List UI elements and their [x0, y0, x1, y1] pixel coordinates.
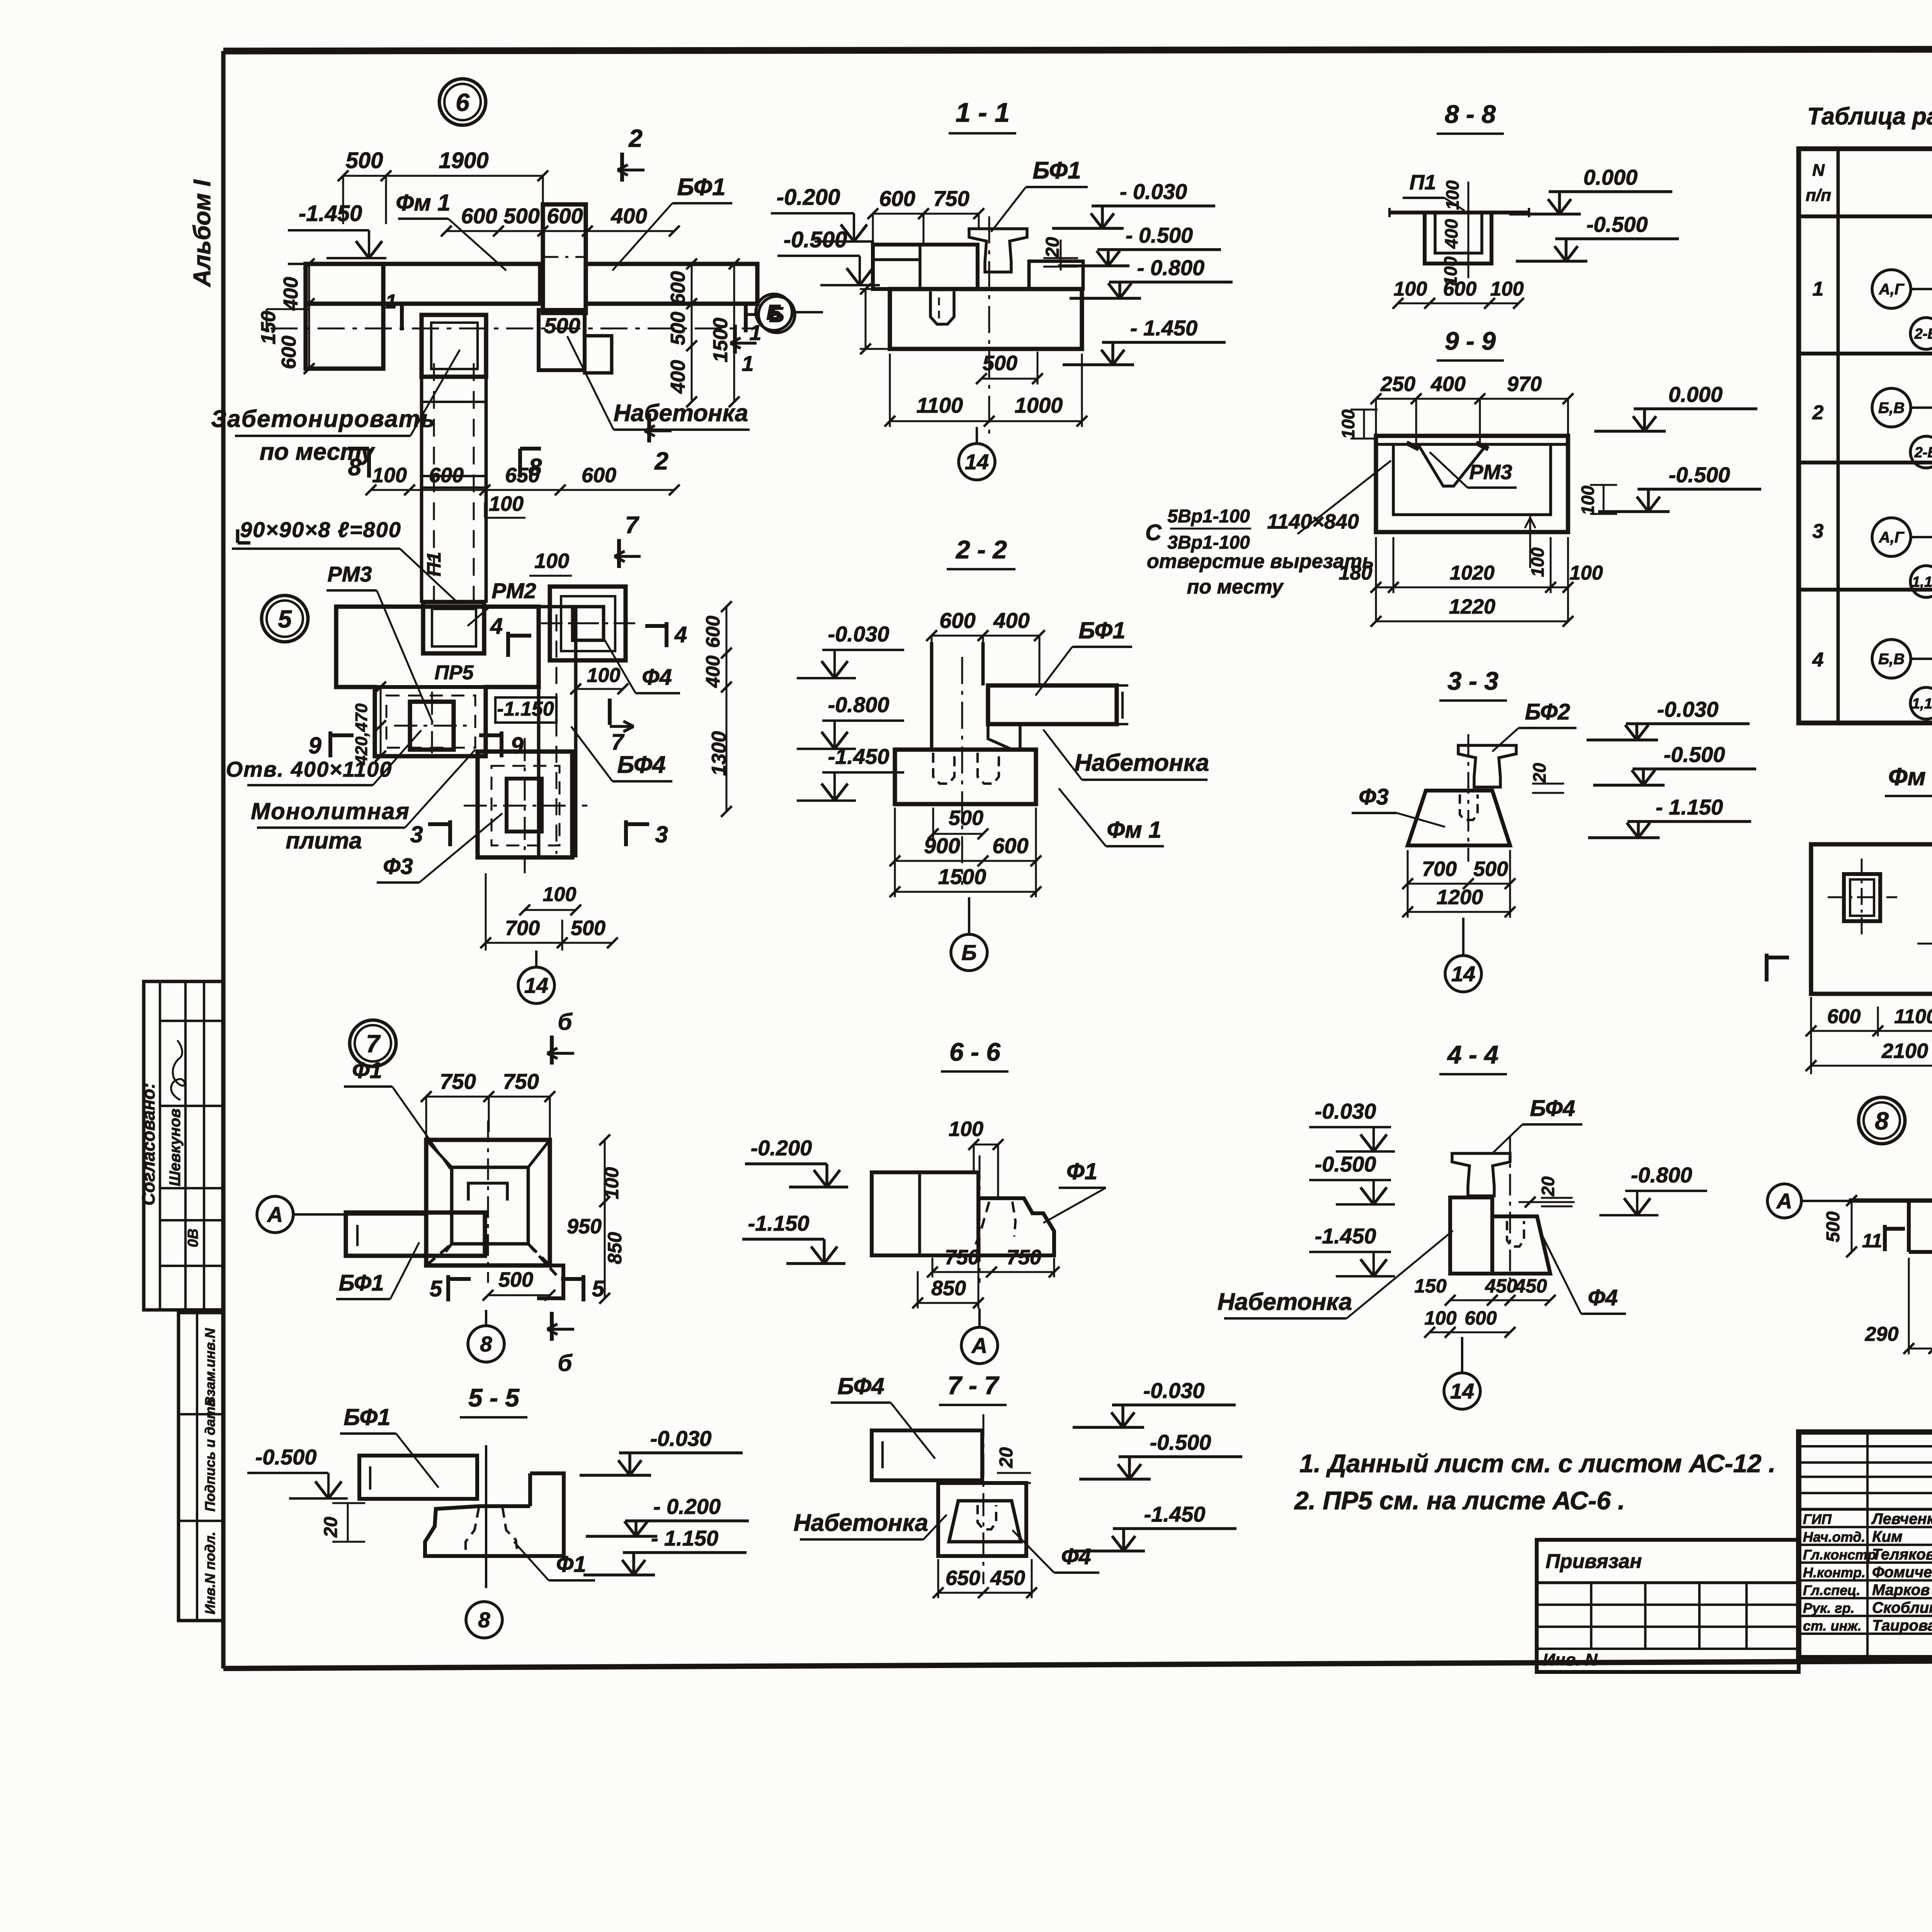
section 3-3 foundation Ф3 [1408, 791, 1510, 845]
svg-text:Б,В: Б,В [1878, 651, 1905, 668]
svg-text:500: 500 [949, 806, 983, 830]
svg-text:4: 4 [674, 622, 687, 647]
svg-text:- 0.200: - 0.200 [653, 1494, 721, 1519]
node 6 axis dashdot [270, 328, 757, 330]
svg-text:600: 600 [278, 336, 300, 369]
svg-text:N: N [1812, 161, 1825, 180]
svg-text:БФ4: БФ4 [617, 752, 665, 778]
svg-text:450: 450 [1514, 1275, 1547, 1297]
svg-text:Набетонка: Набетонка [1218, 1289, 1352, 1315]
svg-text:-0.500: -0.500 [1150, 1430, 1211, 1454]
svg-text:А: А [267, 1202, 283, 1227]
svg-text:500: 500 [983, 352, 1017, 375]
svg-text:150: 150 [257, 311, 280, 345]
node 6 right dim chain [691, 264, 693, 402]
svg-text:-0.500: -0.500 [784, 227, 847, 252]
node 7 foundation Ф1 plan [426, 1140, 550, 1265]
svg-text:650: 650 [505, 464, 540, 487]
svg-text:400: 400 [993, 608, 1029, 633]
svg-text:Гл.констр: Гл.констр [1803, 1547, 1876, 1563]
svg-text:Фм 1: Фм 1 [1888, 763, 1932, 791]
node 6 section mark 2 top [620, 153, 624, 182]
section 6-6 Ф1 profile [978, 1198, 1054, 1255]
svg-text:180: 180 [1339, 562, 1372, 584]
sheet frame [223, 49, 1932, 51]
svg-text:2. ПР5 см. на листе АС-6: 2. ПР5 см. на листе АС-6 . [1294, 1486, 1625, 1515]
svg-text:500: 500 [544, 313, 580, 338]
section 1-1 column axis [988, 216, 990, 440]
section 3-3 axis bubble 14 [1445, 956, 1481, 992]
section 6-6 beam block [872, 1172, 978, 1255]
svg-text:2-Б: 2-Б [1914, 444, 1932, 461]
svg-text:600: 600 [879, 186, 915, 211]
svg-text:420,470: 420,470 [352, 703, 371, 765]
svg-text:-0.800: -0.800 [1631, 1163, 1692, 1187]
svg-text:100: 100 [534, 549, 569, 573]
svg-text:-1.450: -1.450 [299, 201, 362, 226]
svg-text:1: 1 [742, 351, 753, 376]
svg-text:100: 100 [1578, 485, 1598, 515]
svg-text:8: 8 [348, 454, 362, 481]
svg-text:8: 8 [478, 1608, 490, 1632]
Фм1 column opening 1 [1844, 874, 1880, 921]
svg-text:РМ3: РМ3 [1469, 461, 1512, 484]
svg-text:1500: 1500 [709, 318, 732, 362]
node 5 right dim chain [726, 607, 728, 811]
svg-text:600: 600 [939, 608, 975, 633]
section 9-9 box [1376, 436, 1568, 532]
svg-text:3: 3 [655, 821, 668, 847]
node 5 foundation Ф4 plan [550, 587, 626, 660]
svg-text:650: 650 [946, 1566, 980, 1590]
svg-text:А: А [1776, 1189, 1792, 1213]
svg-text:-0.800: -0.800 [828, 692, 889, 717]
svg-text:Взам.инв.N: Взам.инв.N [202, 1328, 218, 1406]
node 5 section marks 9 [328, 731, 332, 757]
svg-text:3: 3 [410, 821, 423, 847]
svg-text:400: 400 [702, 655, 724, 688]
svg-text:Б,В: Б,В [1878, 400, 1905, 417]
svg-text:500: 500 [667, 312, 689, 345]
node 7 axis bubble 8 [468, 1326, 504, 1362]
svg-text:20: 20 [1529, 763, 1549, 783]
node 7 beam БФ1 plan [346, 1213, 485, 1256]
svg-text:1: 1 [749, 320, 761, 345]
svg-text:400: 400 [611, 204, 647, 228]
node 6 left block [306, 264, 383, 369]
svg-text:- 0.800: - 0.800 [1137, 255, 1204, 280]
node 5 wall БФ4 strip [537, 687, 541, 857]
svg-text:100: 100 [1570, 562, 1603, 584]
section 9-9 bottom dims [1376, 587, 1568, 588]
section 8-8 slab line [1389, 211, 1529, 214]
svg-text:-0.030: -0.030 [1143, 1378, 1205, 1403]
svg-text:- 1.150: - 1.150 [1656, 795, 1723, 819]
svg-text:750: 750 [933, 186, 969, 211]
svg-text:100: 100 [1338, 409, 1358, 439]
svg-text:б: б [558, 1009, 573, 1035]
svg-text:850: 850 [604, 1232, 626, 1264]
svg-text:ст. инж.: ст. инж. [1803, 1618, 1862, 1634]
svg-text:450: 450 [1485, 1275, 1517, 1297]
node 5 axis bubble 14 [518, 967, 554, 1003]
svg-text:100: 100 [372, 464, 407, 487]
svg-text:600: 600 [702, 616, 724, 648]
svg-text:2100: 2100 [1881, 1039, 1928, 1063]
section 2-2 dims 900 600 [895, 860, 1036, 862]
node 6 column БФ1 plan [543, 204, 586, 313]
section 6-6 dims 750 750 [932, 1271, 1054, 1273]
svg-text:750: 750 [503, 1069, 539, 1094]
svg-text:А: А [971, 1333, 987, 1358]
svg-text:3: 3 [1813, 520, 1824, 543]
svg-text:1200: 1200 [1437, 886, 1483, 909]
svg-text:500: 500 [571, 917, 605, 940]
node 6 opening РМ2 [422, 315, 486, 377]
svg-text:Теляковский: Теляковский [1872, 1546, 1932, 1563]
svg-text:Забетонировать: Забетонировать [211, 406, 436, 432]
svg-text:5 - 5: 5 - 5 [468, 1383, 520, 1412]
node 5 monolithic slab [375, 687, 486, 756]
node 7 axis А [257, 1196, 293, 1233]
section 1-1 left ext lines [860, 288, 890, 290]
svg-text:-0.500: -0.500 [1587, 212, 1648, 236]
svg-text:100: 100 [587, 664, 621, 687]
node 5 section mark 4 [506, 632, 510, 657]
svg-text:Набетонка: Набетонка [1075, 750, 1209, 776]
section 1-1 rail БФ1 [969, 229, 1027, 272]
section 8-8 bottom dims [1398, 303, 1519, 304]
node 5 opening РМ2 top [423, 602, 484, 653]
svg-text:Инв.N подл.: Инв.N подл. [202, 1532, 218, 1614]
section 1-1 dims 1100 1000 [890, 420, 1082, 422]
svg-text:РМ3: РМ3 [327, 562, 372, 586]
svg-text:7 - 7: 7 - 7 [947, 1371, 1000, 1400]
node 6 foundation band [306, 264, 540, 304]
node 7 section mark б bottom [550, 1312, 554, 1341]
section 4-4 rail БФ4 [1452, 1153, 1510, 1196]
svg-text:Ф4: Ф4 [1588, 1285, 1618, 1310]
svg-text:14: 14 [965, 450, 989, 474]
svg-text:1: 1 [1813, 278, 1824, 300]
svg-text:9: 9 [510, 733, 524, 759]
section 4-4 dims 100 600 [1430, 1332, 1510, 1333]
section 1-1 axis bubble 14 [959, 444, 995, 480]
svg-text:БФ2: БФ2 [1525, 699, 1570, 724]
svg-text:Согласовано:: Согласовано: [138, 1083, 158, 1206]
svg-text:БФ4: БФ4 [837, 1373, 884, 1399]
svg-text:290: 290 [1865, 1323, 1899, 1345]
svg-text:850: 850 [931, 1277, 966, 1300]
node 8 dims 290 500 [1909, 1348, 1932, 1350]
svg-text:- 0.030: - 0.030 [1120, 179, 1187, 204]
svg-text:1100: 1100 [917, 393, 963, 417]
svg-text:1 - 1: 1 - 1 [956, 97, 1010, 128]
svg-text:по месту: по месту [1187, 576, 1284, 598]
svg-text:Альбом I: Альбом I [189, 179, 216, 287]
svg-text:Шевкунов: Шевкунов [167, 1109, 184, 1186]
node 7 bubble [350, 1020, 396, 1066]
svg-text:8: 8 [480, 1332, 492, 1356]
svg-text:600: 600 [1464, 1307, 1497, 1329]
svg-text:Гл.спец.: Гл.спец. [1803, 1582, 1860, 1598]
svg-text:1. Данный лист см. с лист: 1. Данный лист см. с листом АС-12 . [1299, 1449, 1776, 1478]
svg-text:2: 2 [1812, 401, 1824, 424]
node 6 section mark 2 bottom [647, 413, 651, 442]
svg-text:-1.150: -1.150 [497, 698, 554, 720]
load table grid [1799, 149, 1932, 723]
node 5 dims 700 500 [486, 942, 612, 944]
section 8-8 channel [1425, 213, 1492, 264]
node 6 section marks 8-8 [367, 449, 371, 478]
section 2-2 dim 1500 [895, 891, 1036, 893]
svg-text:БФ4: БФ4 [1530, 1096, 1575, 1121]
svg-text:-1.450: -1.450 [828, 744, 889, 769]
section 4-4 dims 150 450 450 [1450, 1299, 1550, 1301]
svg-text:БФ1: БФ1 [344, 1404, 390, 1430]
svg-text:Ф4: Ф4 [642, 665, 672, 690]
node 8 marks 11 [1883, 1225, 1887, 1251]
svg-text:8: 8 [1875, 1107, 1889, 1135]
svg-text:-0.500: -0.500 [1669, 463, 1730, 487]
svg-text:750: 750 [945, 1246, 980, 1269]
svg-text:А,Г: А,Г [1879, 529, 1905, 546]
svg-text:Ф3: Ф3 [383, 854, 413, 879]
node 6 patch 500 [539, 310, 585, 370]
node 6 bubble [439, 79, 486, 125]
svg-text:Таирова: Таирова [1872, 1617, 1932, 1634]
svg-text:100: 100 [543, 883, 577, 906]
node 7 section mark б top [550, 1036, 554, 1065]
svg-text:5: 5 [430, 1276, 442, 1301]
svg-text:1500: 1500 [938, 864, 986, 889]
section 5-5 beam [359, 1456, 477, 1499]
svg-text:-0.500: -0.500 [1315, 1152, 1376, 1176]
svg-text:БФ1: БФ1 [677, 174, 725, 201]
section 6-6 axis bubble А [961, 1327, 998, 1364]
svg-text:500: 500 [503, 204, 539, 228]
section 2-2 axis bubble Б [951, 934, 987, 971]
node 7 dashed foot [442, 1244, 452, 1256]
svg-text:Ф3: Ф3 [1359, 784, 1389, 810]
svg-text:1900: 1900 [439, 148, 488, 173]
svg-text:б: б [558, 1350, 573, 1376]
svg-text:7: 7 [366, 1030, 381, 1058]
section 1-1 foundation Фм1 [890, 289, 1082, 349]
svg-text:400: 400 [280, 277, 302, 311]
svg-text:Привязан: Привязан [1546, 1550, 1642, 1573]
title block left grid [1799, 1445, 1932, 1447]
svg-text:ГИП: ГИП [1803, 1511, 1832, 1527]
node 5 Г-block outline [336, 607, 539, 756]
svg-text:600: 600 [547, 204, 583, 228]
Фм1 section marks 10 [1765, 954, 1769, 981]
Фм1 plan body [1811, 844, 1932, 994]
svg-text:Фм 1: Фм 1 [396, 190, 450, 216]
svg-text:500: 500 [1823, 1211, 1844, 1242]
svg-text:11: 11 [1862, 1230, 1882, 1252]
svg-text:400: 400 [1441, 219, 1461, 249]
section 4-4 bed + Ф4 [1450, 1197, 1492, 1274]
svg-text:5: 5 [278, 605, 292, 633]
node 7 section marks 5 [446, 1275, 450, 1301]
section 6-6 dim 850 [918, 1302, 978, 1304]
svg-text:1,14: 1,14 [1912, 574, 1932, 590]
node 6 lower dims [371, 489, 674, 491]
svg-text:Набетонка: Набетонка [614, 400, 748, 427]
svg-text:14: 14 [1450, 1379, 1474, 1403]
svg-text:600: 600 [1443, 278, 1477, 300]
svg-text:20: 20 [1538, 1176, 1558, 1197]
svg-text:ПР5: ПР5 [434, 662, 474, 684]
node 6 axis bubble Б [759, 296, 795, 333]
svg-text:2: 2 [654, 447, 668, 475]
svg-text:Ф4: Ф4 [1061, 1544, 1091, 1569]
node 6 dim 500/1900 [343, 175, 543, 177]
section 1-1 dims 600 750 [873, 213, 979, 215]
section 5-5 column Ф1 [425, 1473, 564, 1556]
svg-text:1: 1 [386, 291, 397, 313]
svg-text:Таблица расчетных нагрузок: Таблица расчетных нагрузок на верхний об… [1807, 103, 1932, 130]
svg-text:- 0.500: - 0.500 [1126, 223, 1193, 247]
svg-text:1020: 1020 [1450, 562, 1495, 584]
svg-text:950: 950 [567, 1215, 602, 1238]
svg-text:Б: Б [961, 940, 977, 965]
svg-text:- 1.450: - 1.450 [1130, 316, 1197, 340]
svg-text:0.000: 0.000 [1668, 382, 1723, 406]
svg-text:Б: Б [766, 300, 782, 325]
svg-text:-0.500: -0.500 [255, 1445, 317, 1469]
svg-text:П1: П1 [423, 552, 445, 577]
svg-text:3 - 3: 3 - 3 [1447, 667, 1498, 695]
svg-text:1000: 1000 [1015, 393, 1063, 417]
node 5 foundation Ф3 plan [478, 752, 572, 857]
svg-text:Ким: Ким [1872, 1528, 1903, 1545]
svg-text:-0.500: -0.500 [1664, 742, 1725, 767]
svg-text:-0.030: -0.030 [828, 622, 889, 646]
svg-text:Ф1: Ф1 [352, 1058, 382, 1083]
svg-text:100: 100 [489, 492, 524, 515]
node 8 bubble [1859, 1097, 1905, 1144]
svg-text:750: 750 [1007, 1246, 1041, 1269]
section 9-9 top dims [1376, 398, 1568, 400]
svg-text:600: 600 [429, 464, 464, 487]
svg-text:500: 500 [1473, 857, 1508, 881]
svg-text:- 1.150: - 1.150 [651, 1526, 718, 1550]
section 9-9 funnel [1418, 444, 1487, 486]
svg-text:5Вр1-100: 5Вр1-100 [1167, 506, 1250, 527]
title block outer [1799, 1432, 1932, 1658]
svg-text:4: 4 [1812, 649, 1824, 671]
svg-text:БФ1: БФ1 [1078, 617, 1125, 643]
svg-text:1220: 1220 [1449, 595, 1495, 618]
section 2-2 foundation Фм1 [895, 750, 1036, 804]
svg-text:7: 7 [611, 730, 625, 755]
node 8 axis А [1767, 1184, 1801, 1218]
svg-text:1100: 1100 [1894, 1005, 1932, 1028]
svg-text:Набетонка: Набетонка [794, 1510, 928, 1536]
svg-text:БФ1: БФ1 [1032, 157, 1081, 184]
node 8 wall plan [1849, 1198, 1932, 1202]
svg-text:плита: плита [286, 828, 362, 854]
svg-text:14: 14 [524, 973, 548, 998]
svg-text:500: 500 [498, 1268, 533, 1291]
svg-text:П1: П1 [1410, 171, 1436, 194]
binding block [1537, 1540, 1799, 1672]
svg-text:Марков: Марков [1872, 1582, 1930, 1599]
svg-text:600: 600 [582, 464, 616, 487]
svg-text:Н.контр.: Н.контр. [1803, 1565, 1866, 1580]
svg-text:9 - 9: 9 - 9 [1445, 327, 1496, 355]
svg-text:8 - 8: 8 - 8 [1445, 100, 1496, 128]
section 2-2 dims 600 400 [932, 635, 1039, 637]
svg-text:20: 20 [321, 1517, 341, 1538]
svg-text:Монолитная: Монолитная [251, 798, 410, 824]
svg-text:А,Г: А,Г [1879, 281, 1905, 298]
section 4-4 axis bubble 14 [1444, 1373, 1480, 1409]
svg-text:-1.450: -1.450 [1144, 1502, 1206, 1526]
node 5 opening Отв [410, 702, 454, 750]
svg-text:100: 100 [949, 1117, 983, 1141]
svg-text:900: 900 [924, 833, 960, 858]
svg-text:1,14: 1,14 [1912, 696, 1932, 712]
svg-text:Инв. N: Инв. N [1543, 1650, 1598, 1669]
section 3-3 dim 1200 [1408, 911, 1510, 913]
svg-text:Фомичева: Фомичева [1872, 1564, 1932, 1581]
node 5 mark Т4 [665, 622, 668, 647]
svg-text:п/п: п/п [1806, 186, 1831, 205]
svg-text:600: 600 [992, 833, 1028, 858]
svg-text:600: 600 [667, 271, 689, 305]
svg-text:7: 7 [625, 512, 639, 539]
section 5-5 axis bubble 8 [466, 1602, 502, 1638]
svg-text:Отв. 400×1100: Отв. 400×1100 [226, 757, 393, 781]
node 5 section mark 7 [608, 699, 612, 725]
svg-text:6 - 6: 6 - 6 [949, 1037, 1001, 1066]
svg-text:Ф1: Ф1 [1066, 1158, 1097, 1184]
svg-text:4 - 4: 4 - 4 [1447, 1040, 1498, 1069]
section 1-1 axis bubble Б [756, 294, 792, 330]
svg-text:-0.030: -0.030 [650, 1426, 712, 1451]
node 6 section mark 7 [617, 539, 621, 568]
svg-text:0В: 0В [185, 1228, 201, 1247]
svg-text:0.000: 0.000 [1583, 165, 1638, 189]
svg-text:6: 6 [456, 88, 469, 116]
svg-text:600: 600 [461, 204, 497, 228]
section 2-2 beam БФ1 [988, 685, 1117, 724]
section 3-3 dims 700 500 [1408, 883, 1510, 885]
svg-text:100: 100 [1424, 1307, 1457, 1329]
svg-text:4: 4 [490, 614, 503, 639]
svg-text:Скобликов: Скобликов [1872, 1599, 1932, 1616]
svg-text:450: 450 [990, 1566, 1025, 1590]
svg-text:600: 600 [1827, 1005, 1861, 1028]
svg-text:Ф1: Ф1 [556, 1552, 586, 1577]
section 7-7 dims 650 450 [938, 1592, 1032, 1594]
svg-text:-0.030: -0.030 [1657, 697, 1719, 721]
svg-text:970: 970 [1507, 372, 1542, 396]
approval stamp table [144, 981, 223, 1310]
svg-text:5: 5 [592, 1276, 605, 1301]
svg-text:РМ2: РМ2 [492, 578, 536, 603]
svg-text:БФ1: БФ1 [338, 1270, 384, 1296]
svg-text:400: 400 [667, 360, 689, 394]
svg-text:Рук. гр.: Рук. гр. [1803, 1600, 1855, 1616]
svg-text:100: 100 [1394, 278, 1427, 300]
svg-text:Левченкова: Левченкова [1871, 1510, 1932, 1527]
svg-text:-0.200: -0.200 [751, 1136, 812, 1160]
inventory stamp column [179, 1313, 223, 1621]
